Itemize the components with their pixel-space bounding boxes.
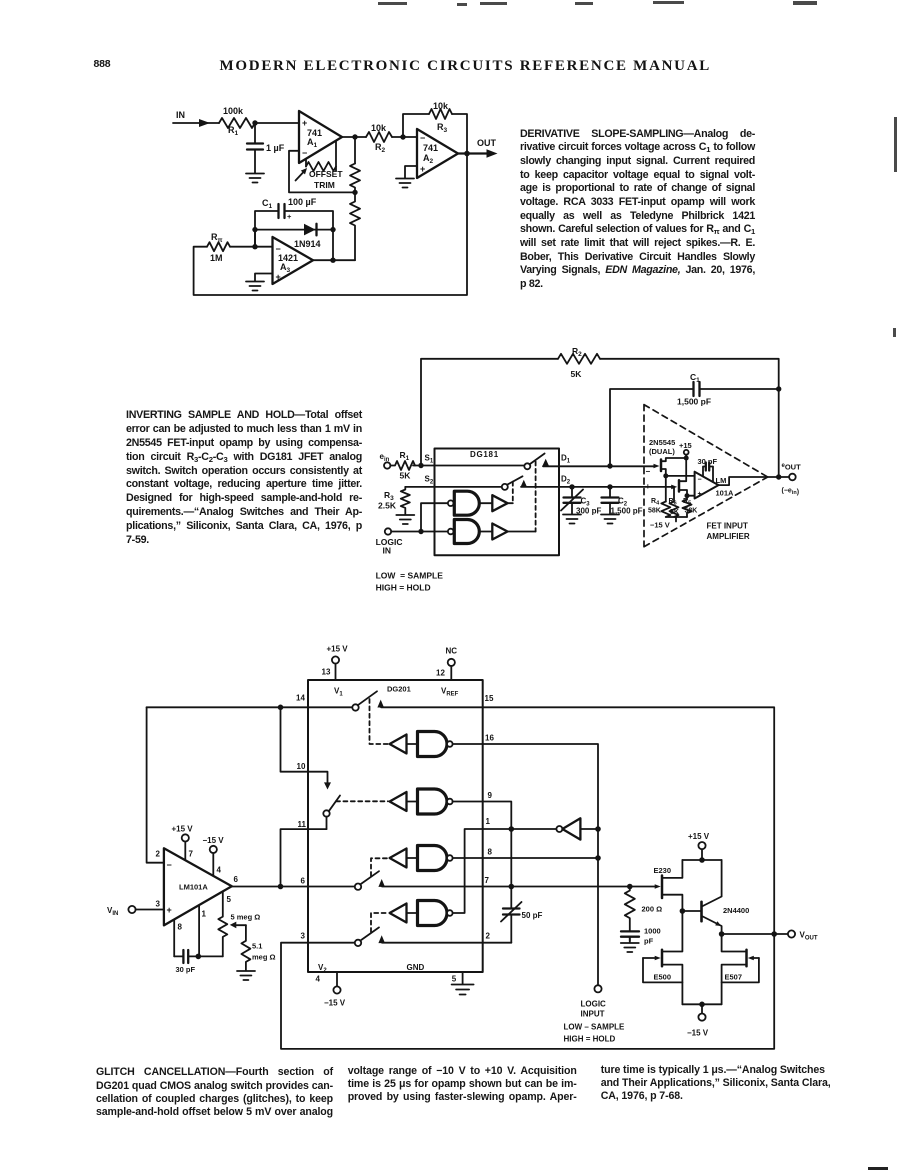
wire pin10 drop bbox=[281, 707, 328, 783]
ground R3 bbox=[396, 515, 414, 524]
svg-text:R1: R1 bbox=[400, 450, 410, 462]
node pin14 junction bbox=[278, 705, 284, 711]
svg-text:−15 V: −15 V bbox=[687, 1029, 709, 1038]
capacitor 30pF bbox=[174, 950, 223, 974]
svg-text:58K: 58K bbox=[648, 508, 661, 515]
svg-text:E500: E500 bbox=[654, 973, 672, 982]
node e-in terminal bbox=[380, 452, 391, 469]
ground 5.1meg bbox=[237, 971, 255, 980]
svg-text:A1: A1 bbox=[307, 137, 318, 149]
op-amp label LM101A bbox=[716, 476, 735, 498]
gate row3 inverter bbox=[390, 849, 407, 868]
svg-text:5K: 5K bbox=[670, 509, 679, 516]
op-amp A1 741 bbox=[299, 111, 342, 163]
node S1 label bbox=[425, 454, 434, 465]
wire A2 + to ground bbox=[405, 166, 417, 178]
svg-text:+: + bbox=[646, 482, 651, 491]
svg-text:12: 12 bbox=[436, 669, 445, 678]
transistor E507 bbox=[722, 934, 759, 1004]
resistor R3 2.5K bbox=[378, 487, 410, 515]
resistor R2 5K bbox=[558, 346, 600, 379]
running head title bbox=[220, 59, 712, 74]
node inverter logic junction bbox=[595, 826, 601, 832]
svg-text:VIN: VIN bbox=[107, 906, 118, 917]
transistor E230 bbox=[654, 860, 683, 911]
svg-text:14: 14 bbox=[296, 694, 305, 703]
node A3 output junction bbox=[330, 258, 335, 263]
ground pin5 bbox=[452, 972, 474, 995]
node logic junction bbox=[418, 529, 423, 534]
svg-text:+: + bbox=[167, 905, 172, 915]
wire A1 inverting input loop bbox=[289, 151, 355, 193]
node NC terminal pin12 bbox=[436, 647, 457, 681]
node diode right bbox=[330, 227, 335, 232]
switch row2 arrow bbox=[324, 782, 331, 789]
svg-text:100 µF: 100 µF bbox=[288, 197, 317, 207]
caption col 3 bbox=[601, 1064, 863, 1104]
svg-text:+15 V: +15 V bbox=[172, 825, 194, 834]
wire dashed S2 control bbox=[512, 482, 514, 504]
svg-text:+: + bbox=[698, 491, 702, 498]
svg-text:5: 5 bbox=[452, 975, 457, 984]
node FET drain junction bbox=[684, 456, 689, 461]
svg-text:LOW – SAMPLE: LOW – SAMPLE bbox=[564, 1023, 626, 1032]
pin 1 stem bbox=[199, 905, 206, 956]
node diode left bbox=[252, 227, 257, 232]
svg-text:(−ein): (−ein) bbox=[782, 488, 800, 497]
svg-text:+15 V: +15 V bbox=[327, 645, 349, 654]
node output junction bbox=[464, 151, 470, 157]
svg-text:4: 4 bbox=[316, 975, 321, 984]
capacitor 1uF bbox=[247, 123, 285, 173]
wire NAND1 to buffer1 bbox=[479, 502, 492, 504]
wire D1 bbox=[543, 465, 655, 467]
node source junction a bbox=[663, 473, 668, 478]
svg-text:E230: E230 bbox=[654, 866, 672, 875]
pin 3 label bbox=[156, 900, 161, 909]
svg-text:AMPLIFIER: AMPLIFIER bbox=[707, 532, 750, 541]
wire comp vertical bbox=[510, 829, 512, 943]
arrow input signal bbox=[199, 119, 210, 127]
wire dashed S1 control bbox=[535, 462, 537, 532]
svg-text:−15 V: −15 V bbox=[203, 836, 225, 845]
wire S2 row bbox=[405, 486, 502, 488]
node C2 junction bbox=[607, 484, 612, 489]
gate row2 NAND bbox=[407, 789, 453, 814]
node VIN terminal bbox=[107, 906, 136, 917]
wire minus to LM bbox=[666, 476, 695, 502]
wire buffer1 out bbox=[508, 502, 513, 504]
node LOGIC IN terminal bbox=[376, 528, 403, 555]
potentiometer 5 meg bbox=[218, 891, 260, 956]
node C1/D1 junction bbox=[607, 463, 612, 468]
wire feedback left vertical bbox=[147, 707, 164, 862]
svg-text:A3: A3 bbox=[280, 262, 291, 274]
node pin6 junction bbox=[278, 884, 284, 890]
svg-text:3: 3 bbox=[156, 900, 161, 909]
svg-text:TRIM: TRIM bbox=[314, 180, 335, 190]
pin 6 label opamp bbox=[234, 875, 239, 884]
node S2 label bbox=[425, 475, 434, 486]
node IN input bbox=[176, 110, 185, 120]
svg-text:741: 741 bbox=[423, 143, 438, 153]
gate row1 NAND bbox=[407, 732, 453, 757]
svg-text:R2: R2 bbox=[375, 142, 386, 154]
svg-text:1N914: 1N914 bbox=[294, 239, 321, 249]
gate row4 inverter bbox=[390, 904, 407, 923]
svg-text:100k: 100k bbox=[223, 106, 244, 116]
svg-text:9: 9 bbox=[488, 791, 493, 800]
node + input label bbox=[646, 482, 651, 491]
ground C3 bbox=[563, 515, 581, 524]
wire Rpi to A3 - input bbox=[230, 246, 273, 248]
node +15 terminal bbox=[679, 441, 692, 458]
gate logic inverter bbox=[556, 818, 598, 839]
wire pin11 row bbox=[281, 829, 327, 886]
capacitor 50pF variable bbox=[501, 902, 543, 922]
switch row1 bbox=[352, 691, 384, 710]
svg-text:−: − bbox=[302, 148, 307, 158]
svg-text:6: 6 bbox=[301, 877, 306, 886]
wire dashed row2 control bbox=[336, 800, 388, 802]
wire R2 to A2 bbox=[392, 136, 417, 138]
svg-text:eOUT: eOUT bbox=[782, 463, 802, 472]
svg-text:1: 1 bbox=[486, 817, 491, 826]
gate row1 inverter bbox=[390, 735, 407, 754]
svg-text:R1: R1 bbox=[228, 125, 239, 137]
svg-text:LM101A: LM101A bbox=[179, 883, 208, 892]
svg-text:10k: 10k bbox=[433, 101, 449, 111]
resistor R3 10k feedback bbox=[429, 101, 452, 134]
svg-text:LM: LM bbox=[716, 476, 727, 485]
wire A3 + to ground bbox=[255, 274, 273, 282]
resistor R2 10k bbox=[366, 123, 392, 154]
wire dashed row3 control bbox=[371, 858, 388, 876]
svg-text:VREF: VREF bbox=[441, 687, 459, 698]
resistor R4 58K bbox=[648, 498, 670, 517]
svg-text:+15 V: +15 V bbox=[688, 832, 710, 841]
svg-text:IN: IN bbox=[176, 110, 185, 120]
node pin8 logic junction bbox=[595, 855, 601, 861]
svg-text:11: 11 bbox=[298, 820, 307, 829]
switch row2 bbox=[323, 796, 340, 830]
svg-text:10k: 10k bbox=[371, 123, 387, 133]
transistor 2N5545 dual label bbox=[649, 438, 675, 456]
wire +15 rail bbox=[682, 859, 721, 861]
wire plus to LM bbox=[687, 495, 695, 497]
node base junction bbox=[680, 908, 686, 914]
pin 8 stem bbox=[174, 920, 182, 957]
node S1 junction bbox=[418, 463, 423, 468]
svg-text:−15 V: −15 V bbox=[650, 521, 670, 530]
svg-text:−: − bbox=[420, 133, 425, 143]
diode 1N914 bbox=[294, 224, 321, 249]
node -15V label bbox=[650, 521, 670, 530]
wire R1 to A1 + input bbox=[255, 122, 299, 124]
wire pin1 route bbox=[453, 829, 557, 913]
node output junction bbox=[776, 474, 781, 479]
svg-text:1M: 1M bbox=[210, 253, 223, 263]
gate row4 NAND bbox=[407, 901, 453, 926]
transistor Q3 2N4400 bbox=[682, 860, 749, 934]
wire R3 to output bbox=[452, 114, 467, 154]
ground below 1uF bbox=[246, 174, 264, 183]
svg-text:13: 13 bbox=[322, 668, 331, 677]
wire resistor bottoms bbox=[666, 517, 687, 522]
svg-text:R5: R5 bbox=[683, 498, 691, 507]
wire LM output bbox=[719, 477, 790, 485]
node rail junction bbox=[699, 857, 705, 863]
wire IN to R1 bbox=[173, 122, 219, 124]
wire chain down bbox=[354, 137, 356, 164]
svg-text:1,500 pF: 1,500 pF bbox=[677, 397, 711, 407]
svg-text:LOW = SAMPLE: LOW = SAMPLE bbox=[376, 571, 444, 581]
svg-text:−: − bbox=[646, 467, 651, 476]
wire up to R3 bbox=[403, 114, 429, 137]
svg-text:−15 V: −15 V bbox=[324, 999, 346, 1008]
transistor Q2 JFET b bbox=[671, 460, 687, 496]
caption: derivative slope-sampling bbox=[520, 128, 755, 292]
capacitor C1 1500pF bbox=[610, 372, 779, 466]
svg-text:LOGIC: LOGIC bbox=[581, 1000, 607, 1009]
resistor R5 58K bbox=[683, 496, 698, 517]
node pin1/pin9 junction bbox=[509, 826, 515, 832]
wire buffer2 out bbox=[508, 531, 536, 533]
svg-text:NC: NC bbox=[446, 647, 458, 656]
svg-text:15: 15 bbox=[485, 694, 494, 703]
svg-text:101A: 101A bbox=[716, 489, 735, 498]
wire pin14 row bbox=[147, 706, 353, 708]
svg-text:IN: IN bbox=[383, 546, 392, 556]
pin labels right bbox=[485, 694, 495, 941]
resistor chain upper bbox=[350, 164, 360, 193]
potentiometer offset trim bbox=[296, 141, 344, 190]
resistor 5.1 meg bbox=[241, 925, 275, 970]
pin 2 label bbox=[156, 850, 161, 859]
svg-text:DG181: DG181 bbox=[470, 450, 499, 459]
gate row2 inverter bbox=[390, 792, 407, 811]
node D2 label bbox=[561, 475, 571, 486]
svg-text:R3: R3 bbox=[437, 122, 448, 134]
svg-text:2: 2 bbox=[486, 932, 491, 941]
node -15V terminal pin4 bbox=[316, 972, 346, 1008]
svg-text:3: 3 bbox=[301, 932, 306, 941]
svg-text:5.1: 5.1 bbox=[252, 942, 262, 951]
svg-text:HIGH = HOLD: HIGH = HOLD bbox=[376, 583, 431, 593]
svg-text:10: 10 bbox=[297, 762, 306, 771]
switch S2 bbox=[502, 476, 527, 490]
svg-text:30 pF: 30 pF bbox=[176, 965, 196, 974]
node +15V opamp pin7 bbox=[172, 825, 194, 861]
svg-text:meg Ω: meg Ω bbox=[252, 953, 276, 962]
wire dashed row4 control bbox=[371, 913, 388, 932]
svg-text:OUT: OUT bbox=[477, 138, 497, 148]
switch S1 bbox=[524, 454, 549, 470]
gate NAND driver 1 bbox=[448, 491, 479, 515]
node loop junction bbox=[771, 931, 777, 937]
svg-text:+: + bbox=[287, 212, 292, 221]
ground A2 bbox=[396, 179, 414, 188]
node -15V terminal buffer bbox=[687, 1004, 709, 1037]
node -15 rail junction bbox=[699, 1002, 705, 1008]
resistor R6 5K bbox=[669, 487, 679, 517]
node chain mid bbox=[352, 190, 357, 195]
svg-text:OFFSET: OFFSET bbox=[309, 169, 343, 179]
svg-text:1000: 1000 bbox=[644, 927, 661, 936]
amplifier FET INPUT label bbox=[707, 522, 750, 542]
svg-text:5K: 5K bbox=[571, 369, 583, 379]
svg-text:GND: GND bbox=[407, 963, 425, 972]
caption: glitch cancellation col 1 bbox=[96, 1066, 333, 1119]
node D1 label bbox=[561, 454, 571, 465]
page number bbox=[94, 58, 111, 70]
svg-text:HIGH = HOLD: HIGH = HOLD bbox=[564, 1035, 616, 1044]
svg-text:DG201: DG201 bbox=[387, 685, 411, 694]
node -15V opamp pin4 bbox=[203, 836, 225, 876]
svg-text:8: 8 bbox=[178, 923, 183, 932]
svg-text:INPUT: INPUT bbox=[581, 1010, 605, 1019]
wire A1 output bbox=[342, 136, 366, 138]
svg-text:2N4400: 2N4400 bbox=[723, 906, 749, 915]
capacitor C1 100uF bbox=[255, 197, 333, 247]
resistor R1 100k bbox=[219, 106, 255, 137]
svg-text:−: − bbox=[167, 860, 172, 870]
svg-text:VOUT: VOUT bbox=[800, 931, 818, 942]
svg-text:200 Ω: 200 Ω bbox=[642, 905, 663, 914]
svg-text:C1: C1 bbox=[690, 372, 700, 384]
node pin7 comp junction bbox=[509, 884, 515, 890]
svg-text:2N5545: 2N5545 bbox=[649, 438, 675, 447]
svg-text:pF: pF bbox=[644, 937, 654, 946]
svg-text:50 pF: 50 pF bbox=[522, 911, 543, 920]
top edge scan dashes bbox=[378, 2, 407, 5]
resistor chain lower bbox=[350, 192, 360, 260]
svg-text:+: + bbox=[420, 164, 425, 174]
pin labels left bbox=[296, 694, 307, 941]
node 200ohm junction bbox=[627, 884, 633, 890]
bottom right smudge bbox=[868, 1167, 888, 1170]
node +15V terminal pin13 bbox=[322, 645, 349, 681]
wire A3 output to chain bbox=[313, 259, 355, 261]
capacitor 30pF comp bbox=[698, 457, 718, 482]
svg-text:58K: 58K bbox=[685, 508, 698, 515]
node OUT label bbox=[477, 138, 497, 148]
svg-text:4: 4 bbox=[217, 866, 222, 875]
amplifier FET input dashed triangle bbox=[644, 405, 768, 547]
op-amp LM101A bbox=[164, 848, 232, 925]
caption: inverting sample and hold bbox=[126, 409, 362, 548]
svg-text:S1: S1 bbox=[425, 454, 434, 465]
buffer driver 1 bbox=[492, 495, 507, 511]
wire VOUT bbox=[722, 933, 788, 935]
node junction R1/C bbox=[252, 120, 257, 125]
capacitor C2 1500pF bbox=[602, 487, 643, 516]
node emitter junction bbox=[719, 931, 725, 937]
transistor E500 bbox=[643, 911, 682, 1004]
svg-text:2: 2 bbox=[156, 850, 161, 859]
ground 1000pF bbox=[621, 937, 639, 952]
svg-text:(DUAL): (DUAL) bbox=[649, 447, 675, 456]
legend low sample bbox=[376, 571, 444, 593]
wire pin6 output row bbox=[232, 886, 355, 888]
wire -15 rail bbox=[682, 1003, 721, 1005]
wire A2 output bbox=[458, 152, 488, 154]
svg-text:16: 16 bbox=[485, 734, 494, 743]
arrow OUT bbox=[487, 149, 498, 157]
op-amp LM101A inner bbox=[695, 472, 719, 499]
svg-text:D1: D1 bbox=[561, 454, 571, 465]
svg-text:7: 7 bbox=[485, 876, 490, 885]
svg-text:5 meg Ω: 5 meg Ω bbox=[231, 913, 261, 922]
wire logic in bbox=[391, 503, 448, 531]
wire VIN to LM101A bbox=[136, 909, 164, 911]
node pin1 junction bbox=[196, 954, 202, 960]
svg-text:Rπ: Rπ bbox=[211, 232, 223, 244]
svg-text:R4: R4 bbox=[651, 498, 660, 507]
svg-text:V1: V1 bbox=[334, 687, 343, 698]
wire pin7 row bbox=[382, 886, 657, 888]
node C3 junction bbox=[569, 484, 574, 489]
capacitor C3 300pF variable bbox=[561, 487, 601, 516]
right edge scan artifact bbox=[894, 117, 897, 172]
svg-text:1 µF: 1 µF bbox=[266, 143, 285, 153]
wire pin16 route logic bbox=[453, 744, 598, 985]
wire R2 feedback top bbox=[421, 359, 779, 477]
node +15V terminal buffer bbox=[688, 832, 710, 860]
resistor Rpi 1M bbox=[207, 232, 230, 263]
svg-text:5K: 5K bbox=[400, 471, 412, 481]
node C1 right bbox=[776, 386, 781, 391]
buffer driver 2 bbox=[492, 524, 507, 540]
svg-text:ein: ein bbox=[380, 452, 390, 463]
node - input label bbox=[646, 467, 651, 476]
gate row3 NAND bbox=[407, 846, 453, 871]
wire pin8 route bbox=[453, 857, 598, 859]
svg-text:D2: D2 bbox=[561, 475, 571, 486]
ground C2 bbox=[601, 515, 619, 524]
wire D2 bbox=[521, 486, 672, 488]
node A1 output bbox=[352, 134, 357, 139]
wire S1 input bbox=[413, 465, 524, 467]
svg-text:1: 1 bbox=[202, 910, 207, 919]
svg-text:E507: E507 bbox=[725, 973, 743, 982]
node eOUT terminal bbox=[782, 463, 802, 497]
svg-text:+: + bbox=[302, 118, 307, 128]
caption col 2 bbox=[348, 1065, 577, 1105]
node R2/R3 junction bbox=[400, 134, 405, 139]
wire dashed row1 control bbox=[370, 699, 389, 744]
wire pin9 route bbox=[453, 802, 512, 830]
svg-text:30 pF: 30 pF bbox=[698, 457, 718, 466]
gate NAND driver 2 bbox=[448, 520, 479, 544]
svg-text:+15: +15 bbox=[679, 441, 692, 450]
node VOUT terminal bbox=[788, 930, 818, 941]
svg-text:2.5K: 2.5K bbox=[378, 501, 397, 511]
svg-text:S2: S2 bbox=[425, 475, 434, 486]
switch row3 bbox=[355, 871, 385, 890]
wire C1 right leg down bbox=[332, 230, 334, 261]
capacitor 1000pF bbox=[621, 927, 661, 946]
transistor Q1 JFET a bbox=[654, 458, 687, 476]
svg-text:7: 7 bbox=[189, 850, 194, 859]
svg-text:8: 8 bbox=[488, 848, 493, 857]
svg-text:5: 5 bbox=[227, 895, 232, 904]
wire diode row bbox=[255, 230, 333, 247]
ground A3 bbox=[246, 282, 264, 291]
wire feedback loop to Rpi bbox=[194, 154, 467, 296]
wire pin2 row bbox=[382, 942, 511, 944]
resistor R1 5K bbox=[390, 450, 415, 481]
